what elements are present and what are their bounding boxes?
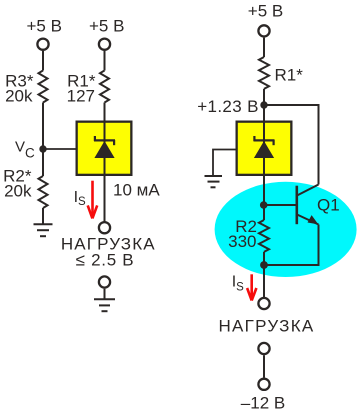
wire VC to regulator <box>43 148 101 150</box>
wire ref to ground right <box>213 150 259 177</box>
current arrow IS left <box>88 181 98 219</box>
wire <box>263 252 265 298</box>
svg-text:IS: IS <box>232 274 244 294</box>
resistor R1* right <box>259 57 269 89</box>
svg-text:20k: 20k <box>5 87 33 106</box>
terminal ground left load <box>99 276 110 287</box>
transistor Q1 <box>297 185 319 225</box>
current arrow IS right <box>247 274 256 300</box>
svg-text:+5 В: +5 В <box>26 16 61 35</box>
svg-text:НАГРУЗКА: НАГРУЗКА <box>218 317 314 336</box>
highlight ellipse <box>215 182 357 277</box>
wire <box>263 355 265 377</box>
resistor R3* <box>39 71 48 103</box>
node emitter dot <box>260 261 268 269</box>
wire <box>104 51 106 71</box>
wire box to node <box>263 176 265 220</box>
reference U2 yellow box <box>237 121 292 177</box>
svg-text:–12 В: –12 В <box>241 393 285 412</box>
wire <box>42 51 44 71</box>
svg-text:IS: IS <box>74 189 86 208</box>
wire <box>104 103 106 122</box>
terminal -12V bottom <box>258 379 269 390</box>
shunt regulator U1 yellow box <box>77 121 132 177</box>
node +1.23V dot <box>260 101 267 108</box>
svg-text:+5 В: +5 В <box>248 2 283 21</box>
ground under load <box>94 299 115 311</box>
wire regulator to load <box>104 176 106 222</box>
wire node to collector <box>264 105 319 185</box>
terminal +5V mid <box>99 39 110 50</box>
wire emitter down and back <box>264 225 319 266</box>
svg-text:≤ 2.5 В: ≤ 2.5 В <box>76 250 135 269</box>
terminal load right <box>258 298 269 309</box>
svg-text:127: 127 <box>67 87 95 106</box>
wire <box>263 38 265 57</box>
svg-text:Q1: Q1 <box>317 196 340 215</box>
wire base <box>264 204 296 206</box>
svg-text:+5 В: +5 В <box>89 16 124 35</box>
svg-text:R1*: R1* <box>275 65 304 84</box>
node base dot <box>260 201 268 209</box>
terminal +5V left <box>37 39 48 50</box>
resistor R2 <box>259 220 269 252</box>
ground right <box>205 176 223 187</box>
wire <box>263 89 265 121</box>
svg-text:VC: VC <box>15 138 35 160</box>
svg-text:330: 330 <box>228 232 256 251</box>
wire <box>42 103 44 177</box>
node VC dot <box>39 145 46 152</box>
svg-text:10 мА: 10 мА <box>113 180 160 199</box>
terminal -12V top <box>258 343 269 354</box>
terminal +5V right <box>258 25 269 36</box>
wire <box>42 208 44 224</box>
ground left <box>34 224 53 236</box>
resistor R1* left <box>100 71 109 103</box>
wire <box>104 289 106 299</box>
terminal load top left <box>99 222 110 233</box>
svg-text:+1.23 В: +1.23 В <box>197 97 259 116</box>
resistor R2* <box>39 176 48 208</box>
svg-text:20k: 20k <box>4 181 32 200</box>
